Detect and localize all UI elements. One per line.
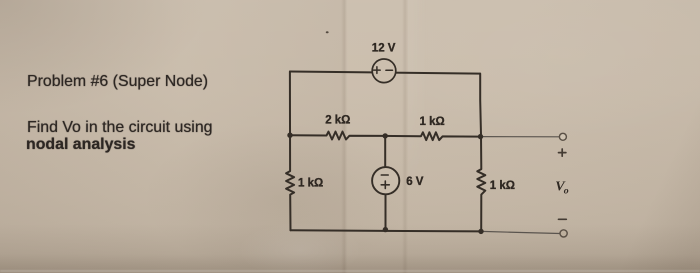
svg-text:1 kΩ: 1 kΩ xyxy=(490,180,515,192)
svg-text:1 kΩ: 1 kΩ xyxy=(420,116,445,128)
svg-text:12 V: 12 V xyxy=(372,42,396,54)
svg-text:o: o xyxy=(564,186,569,197)
svg-text:2 kΩ: 2 kΩ xyxy=(325,115,350,127)
svg-text:6 V: 6 V xyxy=(406,176,424,188)
svg-text:1 kΩ: 1 kΩ xyxy=(298,178,323,190)
